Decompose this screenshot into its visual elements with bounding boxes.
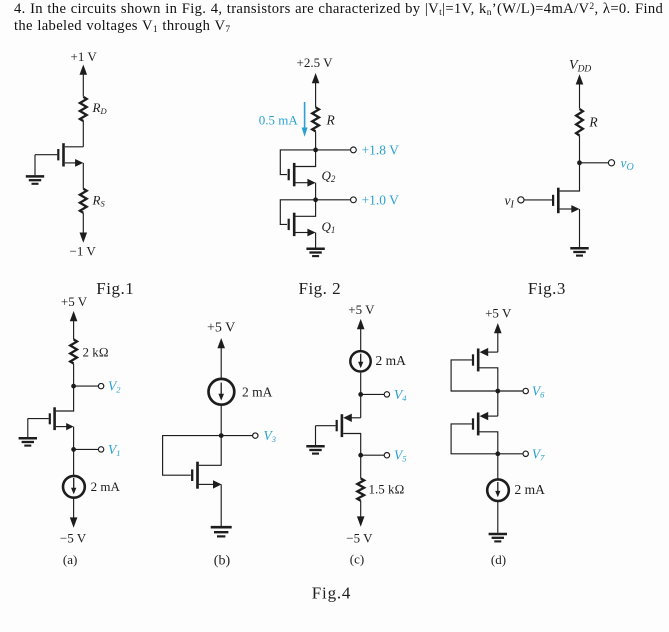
wire [315,132,317,150]
node vO junction [577,160,582,165]
svg-text:Fig.1: Fig.1 [96,279,134,298]
svg-text:R: R [326,113,336,128]
supply arrow up [494,323,502,333]
transistor Q2 source arrow [307,179,315,187]
svg-text:Fig.4: Fig.4 [312,584,351,603]
transistor Mc source wire [351,417,361,419]
current arrow cyan [304,102,306,129]
current source I2 [209,379,235,405]
node V6 junction [495,389,500,394]
wire [579,81,581,109]
resistor RS [80,189,87,213]
transistor Md1 drain wire [480,368,498,391]
resistor RD [80,97,87,121]
wire gate to ground [27,418,29,437]
svg-text:V6: V6 [532,384,545,400]
svg-text:2 kΩ: 2 kΩ [83,345,109,360]
transistor Mb drain wire [199,436,221,466]
svg-text:V3: V3 [264,428,277,444]
svg-text:R: R [588,114,598,129]
svg-text:V2: V2 [108,379,121,395]
node V5 junction [358,453,363,458]
node B junction [313,197,318,202]
svg-text:Q1: Q1 [322,219,336,235]
svg-text:0.5 mA: 0.5 mA [259,113,299,128]
supply arrow up [217,338,225,348]
svg-text:(c): (c) [350,551,364,566]
transistor Md1 gate bar [472,354,474,365]
svg-text:+1.8 V: +1.8 V [362,143,400,158]
terminal V1 [98,447,103,452]
wire [73,449,75,475]
wire [220,484,222,526]
wire [360,455,362,478]
transistor Q2 gate bar [288,169,290,180]
wire [497,391,499,416]
transistor Ma gate wire [28,418,49,420]
transistor Ma source wire [56,426,67,428]
wire to terminal [498,453,523,455]
wire gate to ground [315,426,317,445]
terminal +1.8V [351,147,357,153]
svg-text:V1: V1 [108,442,121,458]
node V1 junction [71,447,76,452]
transistor Mc gate wire [316,425,336,427]
transistor Ma source arrow [66,423,73,430]
transistor Mc channel [341,414,344,437]
svg-text:+5 V: +5 V [207,321,235,336]
supply arrow up [576,74,584,84]
transistor Q1 drain wire [296,200,316,217]
resistor 2k [70,339,77,363]
wire to terminal [74,448,99,450]
resistor R [312,107,319,131]
wire [315,183,317,200]
transistor Md1 channel [477,349,480,372]
svg-text:−1 V: −1 V [70,244,97,259]
terminal V2 [98,383,103,388]
svg-text:Q2: Q2 [322,168,336,184]
terminal vO [608,160,614,166]
wire gate to ground [34,155,36,176]
svg-text:+5 V: +5 V [61,294,88,309]
transistor M1 source arrow [75,159,83,167]
transistor M1 gate bar [57,149,59,160]
ground [489,534,507,541]
wire to terminal [316,149,351,151]
transistor Mb source arrow [213,480,222,488]
svg-text:V5: V5 [394,448,407,464]
node V7 junction [495,451,500,456]
svg-text:RS: RS [92,193,106,209]
ground [306,446,324,453]
svg-text:2 mA: 2 mA [376,353,407,368]
wire [73,499,75,521]
svg-text:vI: vI [505,193,515,211]
wire [315,80,317,108]
wire [220,345,222,379]
transistor Mc drain wire [343,434,361,456]
supply arrow up [357,319,365,329]
svg-text:+5 V: +5 V [485,306,512,321]
svg-text:RD: RD [92,100,108,116]
wire [73,427,75,450]
transistor Q2 channel [293,163,296,186]
supply arrow down [80,233,88,243]
resistor 1.5k [357,478,364,500]
transistor Mc gate bar [336,420,338,431]
transistor M source arrow [571,205,579,213]
wire [497,454,499,479]
wire [82,71,84,97]
transistor Md1 source wire [488,351,498,353]
terminal vI [518,197,524,203]
transistor M gate wire [524,199,552,201]
svg-text:(d): (d) [491,552,506,567]
transistor Q1 source arrow [307,229,315,237]
terminal V4 [384,392,389,397]
transistor Q1 gate feedback wire [280,200,315,225]
wire [497,330,499,353]
wire [579,136,581,163]
resistor R [576,109,583,136]
transistor M source wire [560,208,573,210]
wire [360,501,362,518]
wire [220,405,222,436]
transistor M1 channel [62,143,65,166]
current source I4 [487,479,509,501]
terminal V3 [253,433,258,438]
wire [73,318,75,340]
svg-text:VDD: VDD [569,58,591,74]
transistor Q1 gate bar [288,219,290,230]
supply arrow down [70,517,78,527]
svg-text:+1 V: +1 V [71,49,98,64]
supply arrow up [312,73,320,83]
transistor Mb source wire [199,483,214,485]
svg-text:V4: V4 [394,387,407,403]
svg-text:V7: V7 [532,446,545,462]
transistor Q2 source wire [296,182,310,184]
wire [360,327,362,351]
terminal V7 [523,451,528,456]
svg-text:+1.0 V: +1.0 V [362,193,400,208]
current source I3 [350,351,370,371]
transistor M1 source wire [65,162,78,164]
node V2 junction [71,384,76,389]
wire to terminal [498,390,523,392]
ground [26,176,44,183]
wire [73,364,75,387]
wire [579,209,581,247]
wire [315,233,317,248]
wire [360,373,362,395]
svg-text:Fig.3: Fig.3 [528,279,566,298]
transistor Q1 channel [293,213,296,236]
supply arrow down [357,516,365,526]
transistor M1 drain wire [65,146,84,148]
wire to terminal [74,385,99,387]
transistor Md1 source arrow (PMOS) [480,348,489,356]
supply arrow up [80,65,88,75]
terminal V6 [523,388,528,393]
wire to terminal [361,393,384,395]
transistor Ma gate bar [49,413,51,424]
svg-text:2 mA: 2 mA [242,385,273,400]
ground [211,527,232,536]
svg-text:vO: vO [621,156,634,174]
transistor Mb gate feedback wire [163,436,222,476]
svg-text:+5 V: +5 V [348,302,375,317]
transistor Q2 gate feedback wire [280,150,315,175]
transistor Ma drain wire [56,386,74,411]
transistor Md2 gate bar [472,418,474,429]
wire [82,163,84,189]
ground [570,248,588,255]
terminal +1.0V [351,197,357,203]
transistor M gate bar [552,195,554,206]
transistor Q1 source wire [296,232,310,234]
node V4 junction [358,392,363,397]
svg-text:2 mA: 2 mA [515,482,546,497]
wire [82,121,84,147]
svg-text:+2.5 V: +2.5 V [297,55,334,70]
transistor Q2 drain wire [296,150,316,167]
transistor M1 gate wire [35,154,57,156]
transistor Ma channel [53,407,56,430]
wire [497,502,499,533]
wire to terminal [221,435,252,437]
ground [19,438,37,445]
node A junction [313,148,318,153]
transistor Md2 drain wire [480,432,498,454]
transistor Md2 source arrow (PMOS) [480,412,489,420]
transistor Mc source arrow (PMOS) [343,414,352,422]
ground [306,249,324,256]
transistor M drain wire [560,163,580,191]
svg-text:(a): (a) [63,552,77,567]
transistor Mb gate bar [191,469,193,481]
svg-text:2 mA: 2 mA [91,479,121,494]
svg-text:−5 V: −5 V [346,531,373,546]
svg-text:1.5 kΩ: 1.5 kΩ [369,482,405,497]
transistor M channel [557,188,560,214]
svg-text:−5 V: −5 V [60,531,87,546]
transistor Mb channel [196,462,199,489]
wire to terminal [316,199,351,201]
transistor Md2 gate wire + feedback [451,424,498,454]
node V3 junction [219,433,224,438]
wire to terminal [580,162,609,164]
wire [360,394,362,417]
terminal V5 [384,453,389,458]
svg-text:Fig. 2: Fig. 2 [299,279,342,298]
current source I1 [63,476,85,498]
transistor Md1 gate wire + feedback [451,360,498,391]
transistor Md2 channel [477,413,480,436]
transistor Md2 source wire [488,415,498,417]
wire to terminal [361,454,384,456]
wire [82,213,84,235]
svg-text:(b): (b) [214,554,231,569]
supply arrow up [70,311,78,321]
